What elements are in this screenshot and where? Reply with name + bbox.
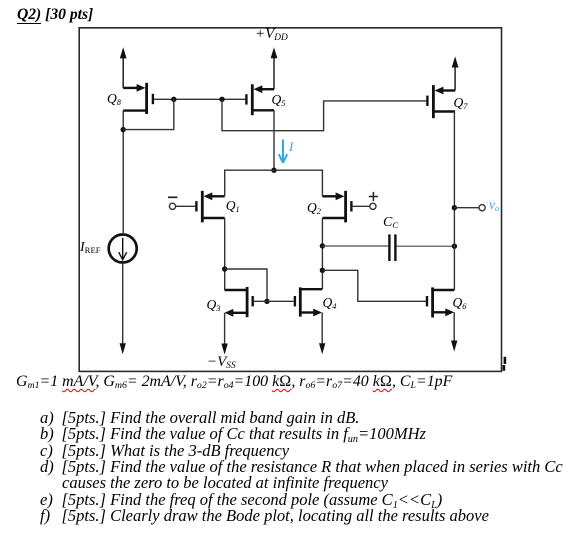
VSS arrow at Q6 source xyxy=(451,341,457,352)
wire: Q1 drain down to Q3 drain xyxy=(224,218,226,290)
wire: output rail Q7 drain to Q6 drain xyxy=(453,112,455,291)
label Q2 xyxy=(307,200,321,216)
label Q4 xyxy=(323,295,337,311)
wire: diff pair tail rail xyxy=(225,170,323,196)
minus sign at Q1 gate xyxy=(168,196,177,198)
junction dot: bias line to Q7 xyxy=(219,97,224,102)
label Q3 xyxy=(207,297,221,313)
wire: bias line to Q7 gate xyxy=(222,99,426,130)
label -VSS xyxy=(207,354,236,371)
label Q8 xyxy=(107,91,121,107)
label Cc value xyxy=(383,215,398,231)
junction dot: Q6 gate tap xyxy=(320,268,325,273)
wire: Q2 drain down to Q4 drain xyxy=(321,218,323,289)
wire: Q5 drain down to tail node xyxy=(273,110,275,170)
VSS arrow at Q4 source xyxy=(319,343,325,354)
transistor Q1 xyxy=(176,191,225,223)
wire: Cc left lead xyxy=(322,245,388,247)
schematic border frame (decorative) xyxy=(79,28,501,372)
wire: output tap to terminal xyxy=(454,207,479,209)
wire: Q4 source to VSS xyxy=(321,313,323,344)
junction dot: Q8 gate tie xyxy=(171,97,176,102)
title Q2) [30 pts] xyxy=(17,6,93,24)
junction dot: Q3/Q4 gate bus xyxy=(264,299,269,304)
label Q7 xyxy=(454,95,468,111)
VDD arrow at Q8 source xyxy=(120,47,127,88)
wire: gate bus Q8-Q5 xyxy=(154,98,246,100)
label IREF xyxy=(80,240,101,256)
current source IREF xyxy=(109,235,137,263)
output terminal circle xyxy=(479,205,485,211)
VDD arrow at Q7 source xyxy=(452,56,459,90)
VSS arrow at Q3 source xyxy=(221,344,227,355)
junction dot: Q8 drain / gate tie xyxy=(121,127,126,132)
current arrow I (blue) xyxy=(279,140,287,163)
input terminal circle (inverting) xyxy=(169,203,175,209)
plus sign at Q2 gate xyxy=(369,192,378,201)
junction dot: Cc / output rail xyxy=(452,244,457,249)
input terminal circle (non-inverting) xyxy=(370,203,376,209)
VSS arrow at left rail bottom xyxy=(120,343,126,354)
transistor Q4 xyxy=(295,287,322,316)
label Q1 xyxy=(226,198,240,214)
wire: Q8 gate-drain tie xyxy=(123,99,174,129)
wire: Q6 source to VSS xyxy=(453,312,455,341)
junction dot: Cc tap xyxy=(320,243,325,248)
wire: Q3 gate-drain tie xyxy=(225,269,267,301)
label I (bias current, blue) xyxy=(289,139,293,155)
VDD arrow at Q5 source xyxy=(271,47,278,89)
wire: Cc right lead to output rail xyxy=(397,245,455,247)
junction dot: output tap xyxy=(452,205,457,210)
wire: Q8 drain / left rail down to IREF and VSS xyxy=(122,111,125,344)
wire: Q2/Q4 node to Q6 gate xyxy=(322,270,426,301)
transistor Q5 xyxy=(246,84,274,115)
junction dot: Q1/Q3 drain node xyxy=(222,266,227,271)
pen mark (cursor artifact) xyxy=(504,357,505,371)
label Q5 xyxy=(272,92,286,108)
label vo (output, blue) xyxy=(489,197,499,213)
wire: Q3 source to VSS xyxy=(224,313,226,344)
transistor Q3 xyxy=(225,287,253,317)
transistor Q2 xyxy=(322,191,369,223)
label Q6 xyxy=(453,295,467,311)
given values line xyxy=(16,373,452,391)
transistor Q8 xyxy=(123,83,153,114)
label +VDD xyxy=(255,26,288,43)
transistor Q7 xyxy=(427,85,455,118)
junction dot: tail node xyxy=(271,168,276,173)
capacitor Cc xyxy=(389,234,395,261)
wire: gate bus Q3-Q4 xyxy=(254,300,294,302)
question items xyxy=(40,408,359,428)
transistor Q6 xyxy=(427,287,454,317)
